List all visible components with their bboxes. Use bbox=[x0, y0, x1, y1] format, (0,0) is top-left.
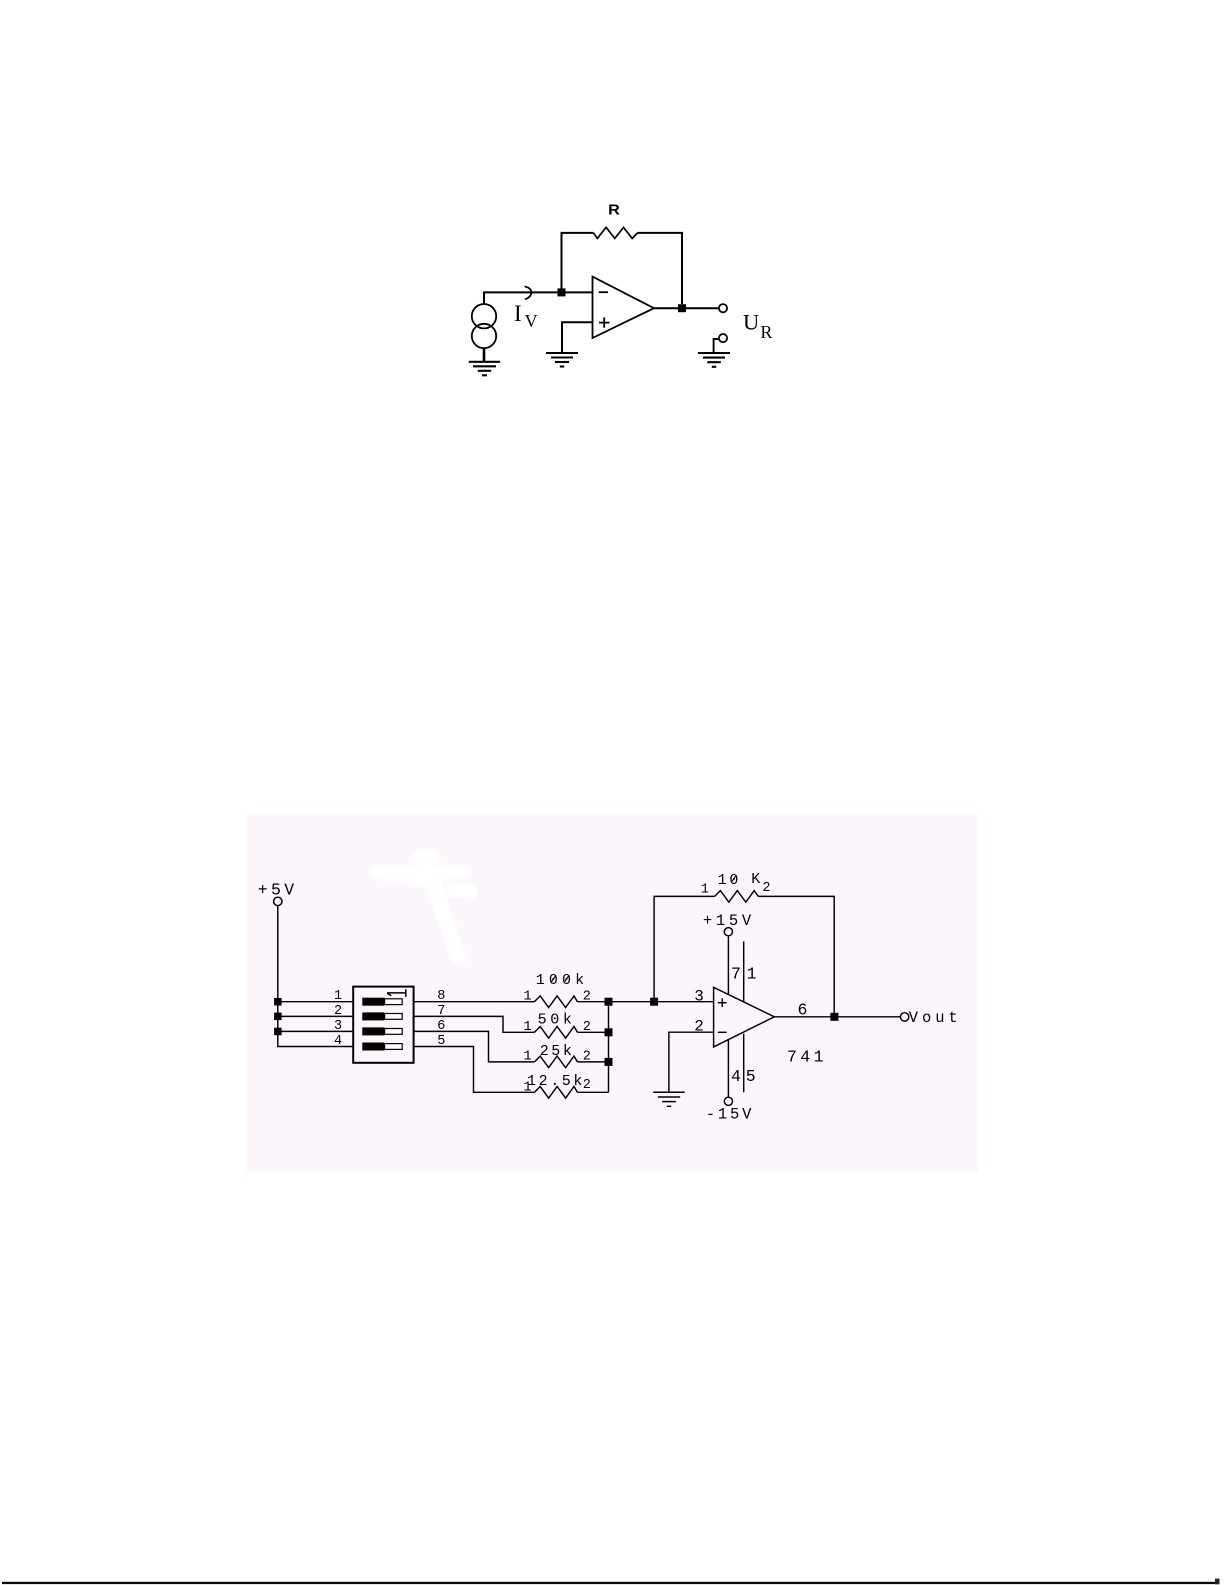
wire 12.5k to bus bbox=[577, 1091, 608, 1093]
svg-text:1: 1 bbox=[334, 989, 342, 1004]
ground under non-inverting input bbox=[546, 353, 578, 367]
node bus row 2 bbox=[605, 1028, 613, 1036]
wire 100k to bus bbox=[577, 1001, 608, 1003]
schematic background panel bbox=[246, 814, 978, 1171]
svg-text:R: R bbox=[608, 203, 620, 219]
wire 25k to bus bbox=[577, 1061, 608, 1063]
ground under pin2 bbox=[653, 1092, 685, 1106]
switch element 4 bbox=[362, 1043, 402, 1051]
wire feedback left bbox=[654, 896, 715, 1001]
wire feedback right bbox=[758, 896, 834, 1016]
op-amp 741 bbox=[714, 987, 775, 1047]
wire pin2 to ground bbox=[669, 1032, 714, 1091]
terminal Vout bbox=[900, 1013, 908, 1021]
svg-text:4: 4 bbox=[731, 1067, 741, 1086]
wire pin7 to R 50k bbox=[414, 1016, 535, 1032]
svg-text:50k: 50k bbox=[538, 1012, 576, 1029]
switch element 2 bbox=[362, 1012, 402, 1020]
svg-text:I: I bbox=[514, 301, 522, 326]
node inverting input bbox=[558, 288, 566, 296]
svg-text:1: 1 bbox=[701, 883, 709, 898]
resistor 12.5k bbox=[534, 1087, 577, 1099]
slashed zero marks bbox=[552, 876, 736, 981]
svg-text:4: 4 bbox=[334, 1034, 342, 1049]
svg-text:Vout: Vout bbox=[909, 1009, 962, 1027]
svg-text:1: 1 bbox=[524, 1080, 532, 1095]
wire inverting input bbox=[562, 291, 593, 293]
resistor 10K feedback bbox=[715, 891, 759, 903]
node rail row 3 bbox=[274, 1028, 282, 1036]
minus sign pin2 bbox=[718, 1031, 727, 1033]
wire pin8 to R 100k bbox=[414, 1001, 535, 1003]
DIP switch S1 box bbox=[353, 987, 413, 1063]
svg-text:1: 1 bbox=[524, 990, 532, 1005]
ground under UR terminal bbox=[698, 353, 730, 367]
node feedback pin3 bbox=[650, 998, 658, 1006]
plus sign pin3 bbox=[718, 998, 727, 1007]
arrow current direction bbox=[525, 286, 532, 299]
wire output bbox=[654, 307, 719, 309]
terminal +5V bbox=[274, 897, 282, 905]
terminal +15V bbox=[724, 928, 732, 936]
wire pin7 supply bbox=[727, 936, 729, 995]
wire source to node bbox=[484, 292, 562, 304]
node rail row 1 bbox=[274, 998, 282, 1006]
wire output Vout bbox=[774, 1016, 900, 1018]
wire pin4 supply bbox=[727, 1040, 729, 1098]
wire terminal to ground bbox=[714, 339, 719, 352]
svg-text:V: V bbox=[525, 311, 538, 331]
svg-text:1: 1 bbox=[747, 965, 757, 984]
svg-text:5: 5 bbox=[746, 1067, 756, 1086]
wire non-inverting input bbox=[562, 322, 593, 352]
wire pin5 to R 12.5k bbox=[414, 1047, 535, 1093]
wire bus to pin3 bbox=[609, 1001, 714, 1003]
node output bbox=[830, 1013, 838, 1021]
switch element 3 bbox=[362, 1027, 402, 1035]
pin line 1 (offset null) bbox=[743, 941, 745, 1001]
svg-text:100k: 100k bbox=[536, 972, 588, 989]
switch position-1 marking (rotated 1) bbox=[387, 989, 406, 997]
svg-text:U: U bbox=[743, 310, 759, 335]
page footer rule bbox=[2, 1582, 1219, 1584]
current source IV bbox=[472, 304, 496, 348]
svg-text:6: 6 bbox=[798, 1000, 808, 1019]
svg-text:10: 10 bbox=[718, 872, 742, 889]
wire source to ground bbox=[483, 348, 486, 362]
svg-text:2: 2 bbox=[334, 1004, 342, 1019]
wire rail to switch pin 2 bbox=[278, 1015, 353, 1017]
svg-text:3: 3 bbox=[694, 988, 704, 1006]
terminal UR top bbox=[719, 304, 727, 312]
resistor 100k bbox=[534, 996, 577, 1008]
svg-text:1: 1 bbox=[524, 1020, 532, 1035]
svg-text:25k: 25k bbox=[540, 1043, 575, 1060]
minus sign bbox=[599, 291, 608, 293]
resistor 50k bbox=[534, 1027, 577, 1039]
resistor 25k bbox=[534, 1056, 577, 1068]
ground under current source bbox=[469, 362, 500, 376]
node bus row 1 bbox=[605, 998, 613, 1006]
wire pin6 to R 25k bbox=[414, 1031, 535, 1062]
svg-text:K: K bbox=[751, 871, 760, 888]
svg-text:2: 2 bbox=[583, 1078, 591, 1093]
svg-text:12.5k: 12.5k bbox=[527, 1073, 585, 1090]
resistor R bbox=[594, 227, 638, 238]
wire 50k to bus bbox=[577, 1031, 608, 1033]
wire rail to switch pin 3 bbox=[278, 1030, 353, 1032]
svg-text:-15V: -15V bbox=[706, 1106, 754, 1124]
wire rail to switch pin 1 bbox=[278, 1001, 353, 1003]
svg-text:7: 7 bbox=[731, 965, 741, 984]
svg-text:741: 741 bbox=[787, 1047, 827, 1066]
switch element 1 bbox=[362, 998, 402, 1006]
svg-text:2: 2 bbox=[694, 1018, 704, 1036]
footer rule end mark bbox=[1215, 1579, 1220, 1585]
wire +5V rail bbox=[278, 906, 353, 1047]
terminal -15V bbox=[724, 1097, 732, 1105]
node rail row 2 bbox=[274, 1013, 282, 1021]
plus sign bbox=[599, 317, 610, 327]
pin line 5 (offset null) bbox=[743, 1034, 745, 1093]
wire summing bus bbox=[608, 1002, 610, 1093]
svg-text:2: 2 bbox=[762, 881, 770, 896]
svg-text:3: 3 bbox=[334, 1019, 342, 1034]
op-amp U1 bbox=[593, 277, 655, 338]
terminal UR bottom bbox=[719, 334, 727, 342]
white-out smear shape bbox=[371, 849, 477, 964]
svg-text:1: 1 bbox=[524, 1050, 532, 1065]
node output bbox=[678, 304, 686, 312]
svg-text:R: R bbox=[760, 322, 772, 342]
wire feedback top bbox=[562, 233, 683, 304]
node bus row 3 bbox=[605, 1058, 613, 1066]
